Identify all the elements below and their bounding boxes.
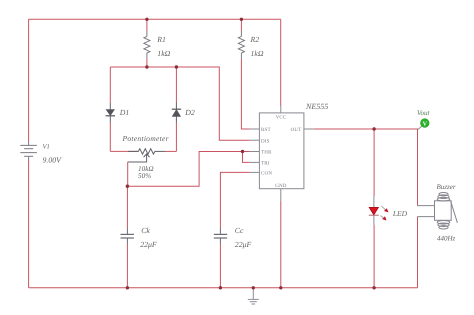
op-amp-box U1 NE555 body bbox=[259, 113, 304, 189]
wire bottom rail bbox=[29, 287, 418, 289]
svg-text:THR: THR bbox=[261, 150, 272, 156]
svg-text:DIS: DIS bbox=[261, 138, 270, 144]
capacitor Ck bbox=[121, 229, 134, 244]
svg-text:9.00V: 9.00V bbox=[43, 155, 63, 164]
svg-text:LED: LED bbox=[392, 209, 408, 218]
svg-text:22μF: 22μF bbox=[140, 240, 157, 249]
svg-text:1kΩ: 1kΩ bbox=[157, 49, 170, 58]
svg-text:Buzzer: Buzzer bbox=[437, 183, 456, 191]
wire wiper down bbox=[127, 162, 129, 186]
ground bbox=[248, 288, 259, 304]
svg-text:Vout: Vout bbox=[417, 109, 431, 117]
wire R2 to RST bbox=[241, 59, 249, 129]
pin stub CON bbox=[250, 171, 260, 173]
wire buzzer bottom bbox=[417, 217, 419, 288]
svg-text:OUT: OUT bbox=[291, 127, 302, 133]
wire D2 upper bbox=[175, 67, 177, 103]
svg-text:NE555: NE555 bbox=[305, 102, 328, 111]
wire LED bottom bbox=[373, 225, 375, 288]
node top R2 junction bbox=[240, 18, 243, 21]
svg-text:D1: D1 bbox=[119, 108, 130, 117]
wire VCC from top rail bbox=[280, 19, 282, 106]
wire THR junction to pin bbox=[243, 151, 250, 153]
wire Ck top bbox=[126, 186, 128, 228]
potentiometer body bbox=[110, 149, 176, 154]
wire diode-box top extension to DIS bbox=[176, 67, 249, 140]
svg-text:22μF: 22μF bbox=[235, 240, 252, 249]
wire GND pin down bbox=[280, 202, 282, 288]
svg-text:V1: V1 bbox=[43, 144, 50, 151]
pin stub DIS bbox=[250, 139, 260, 141]
svg-text:Ck: Ck bbox=[141, 226, 150, 235]
pin stub VCC bbox=[280, 106, 282, 113]
wire R1 bottom lead bbox=[146, 59, 148, 67]
svg-text:R1: R1 bbox=[156, 35, 166, 44]
svg-text:GND: GND bbox=[275, 183, 287, 189]
wire D2 lower bbox=[175, 123, 177, 152]
wire left rail (battery branch upper) bbox=[28, 19, 30, 141]
svg-text:VCC: VCC bbox=[276, 115, 287, 121]
probe Vout bbox=[418, 126, 422, 129]
wire top rail bbox=[29, 18, 281, 20]
svg-text:CON: CON bbox=[261, 171, 272, 177]
node ground junction bbox=[252, 286, 255, 289]
wire D1 lower bbox=[109, 123, 111, 152]
wire diode-box top bbox=[110, 66, 176, 68]
node wiper junction bbox=[126, 185, 129, 188]
wire Ck bottom bbox=[126, 244, 128, 288]
wire left rail (battery branch lower) bbox=[28, 161, 30, 288]
wire Cc bottom bbox=[219, 244, 221, 288]
wire THR to TRI tie bbox=[243, 152, 250, 163]
pin stub RST bbox=[250, 128, 260, 130]
node D2 top junction bbox=[175, 65, 178, 68]
pin stub OUT bbox=[304, 128, 314, 130]
node GND pin junction bbox=[279, 286, 282, 289]
diode D2 bbox=[172, 103, 181, 123]
node Ck bottom junction bbox=[126, 286, 129, 289]
wire OUT to buzzer bbox=[314, 129, 418, 206]
node OUT-LED junction bbox=[372, 127, 375, 130]
pin stub TRI bbox=[250, 161, 260, 163]
svg-text:1kΩ: 1kΩ bbox=[251, 49, 264, 58]
node THR-TRI junction bbox=[241, 150, 244, 153]
svg-text:Cc: Cc bbox=[235, 226, 244, 235]
wire CON to Cc bbox=[220, 172, 249, 228]
node Cc bottom junction bbox=[219, 286, 222, 289]
capacitor Cc bbox=[214, 229, 227, 244]
svg-text:RST: RST bbox=[261, 127, 271, 133]
pin stub THR bbox=[250, 151, 260, 153]
node R1 bottom junction bbox=[145, 65, 148, 68]
buzzer LS1 bbox=[418, 193, 458, 230]
diode D1 bbox=[106, 103, 115, 123]
resistor R2 bbox=[238, 31, 244, 59]
resistor R1 bbox=[144, 31, 150, 59]
wire R2 top lead bbox=[240, 19, 242, 31]
pin stub GND bbox=[280, 189, 282, 202]
wire wiper junction to THR bbox=[127, 152, 242, 187]
wire LED branch down bbox=[373, 129, 375, 196]
svg-text:V: V bbox=[423, 121, 428, 127]
LED D3 bbox=[369, 196, 389, 225]
wire R1 top lead bbox=[146, 19, 148, 31]
wire D1 upper bbox=[109, 67, 111, 103]
svg-text:Potentiometer: Potentiometer bbox=[122, 134, 169, 143]
node LED bottom junction bbox=[372, 286, 375, 289]
potentiometer wiper bbox=[128, 154, 150, 162]
svg-text:TRI: TRI bbox=[261, 161, 270, 167]
battery V1 bbox=[20, 142, 37, 161]
svg-text:440Hz: 440Hz bbox=[437, 234, 456, 242]
svg-text:D2: D2 bbox=[184, 108, 195, 117]
svg-text:50%: 50% bbox=[138, 172, 151, 180]
node top R1 junction bbox=[145, 18, 148, 21]
svg-text:R2: R2 bbox=[250, 35, 260, 44]
